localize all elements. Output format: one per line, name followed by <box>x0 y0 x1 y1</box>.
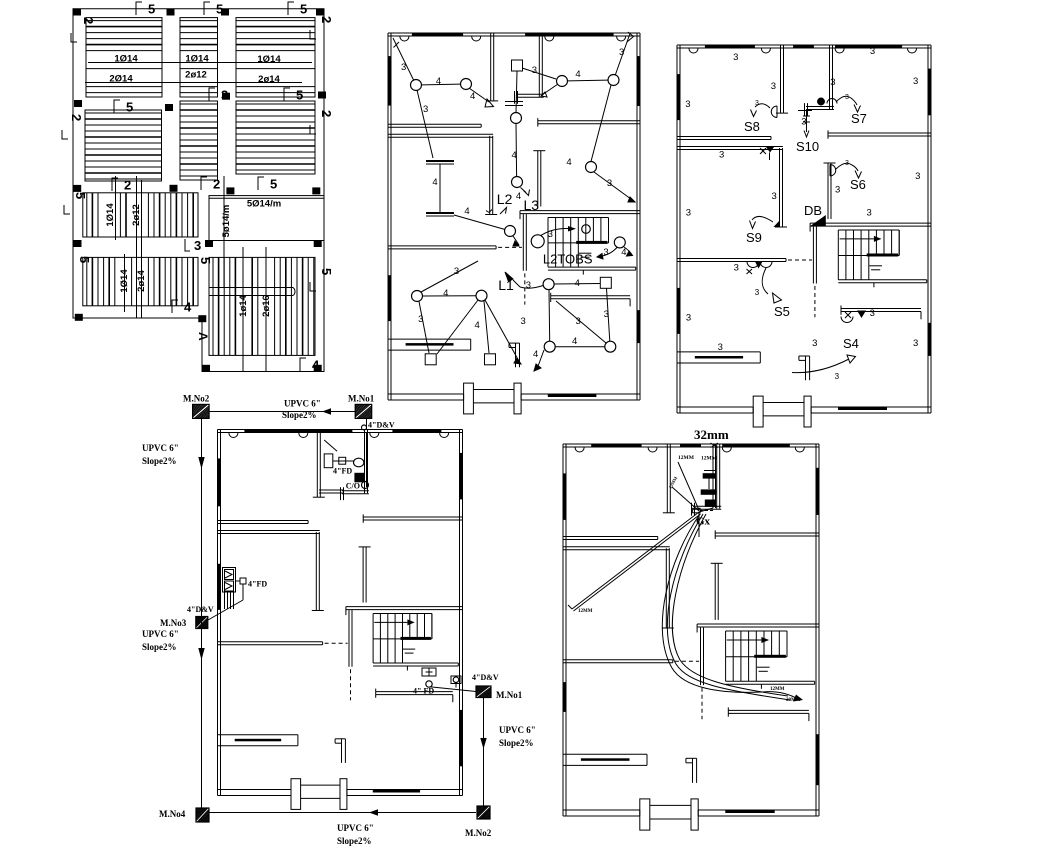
sewer pipe left <box>201 418 203 808</box>
svg-text:4"D&V: 4"D&V <box>187 605 214 614</box>
circuit label 4 (3) <box>512 150 517 161</box>
sewer pipe bottom <box>209 809 476 815</box>
drain line right <box>429 684 476 692</box>
drainage plan window left 1 <box>218 458 222 506</box>
wire F11-square3 <box>419 302 429 354</box>
rebar label 2Ø16 panel B3 <box>261 295 272 317</box>
svg-text:4"D&V: 4"D&V <box>368 421 395 430</box>
section marker 2 left-2 <box>62 114 84 139</box>
switch plan outer wall top <box>677 45 931 48</box>
lighting plan door arc <box>400 37 409 42</box>
drainage plan outer wall right <box>460 430 463 796</box>
svg-text:3: 3 <box>870 308 875 319</box>
drainage plan window top 1 <box>244 430 352 434</box>
water plan outer wall bottom-right <box>698 810 819 816</box>
water plan dashed passage <box>675 660 699 662</box>
junction mark hall <box>760 147 774 160</box>
switch plan outer wall bottom-left <box>677 407 753 413</box>
wall tag 3 (7) <box>801 117 806 128</box>
switch plan wall bath jog <box>805 103 808 116</box>
drainage plan window top 2 <box>392 430 441 434</box>
water plan door arc <box>795 448 804 453</box>
label Slope left2 <box>142 642 177 652</box>
switch plan stairs level mark <box>869 266 882 270</box>
switch plan window left 1 <box>677 74 681 120</box>
switch plan DB label <box>804 203 822 218</box>
svg-text:12MM: 12MM <box>678 455 695 461</box>
lighting plan wall bedroom2 north <box>388 134 493 137</box>
switch label S5 <box>774 304 790 319</box>
wire wardrobe vertical <box>439 164 441 212</box>
water branch 1 <box>678 462 699 510</box>
svg-text:M.No2: M.No2 <box>183 394 210 404</box>
switch label S4 <box>843 336 859 351</box>
drainage plan outer wall left <box>218 430 221 796</box>
water curve 3 <box>672 514 788 696</box>
svg-text:2: 2 <box>213 177 220 192</box>
wire square-F15 <box>607 289 610 342</box>
svg-text:2ø14: 2ø14 <box>258 74 280 85</box>
drainage plan wall hall <box>349 610 352 667</box>
switch plan porch edge <box>763 403 804 416</box>
water plan stairs arrow <box>727 637 769 643</box>
drainage plan wall bath right <box>365 430 368 494</box>
svg-text:5: 5 <box>77 256 92 263</box>
section marker 5 row3 <box>258 177 277 192</box>
svg-text:S8: S8 <box>744 119 760 134</box>
svg-text:2: 2 <box>319 16 334 23</box>
wardrobe bar 1 <box>426 160 454 164</box>
wire L1 arrow <box>505 272 543 288</box>
drainage plan outer wall bottom-right <box>347 790 463 796</box>
bath shower line <box>324 440 337 451</box>
circuit label 3 (11) <box>604 309 609 320</box>
switch plan door arc <box>761 49 770 54</box>
soil pipe M.No1 <box>362 418 367 487</box>
svg-text:M.No4: M.No4 <box>159 809 186 819</box>
wire wardrobe-F8 <box>454 215 505 230</box>
ceiling light F4 <box>557 76 568 87</box>
section marker 2 right-2 <box>310 110 334 134</box>
water plan wall hall <box>701 628 704 686</box>
lighting plan wall bedroom4 left <box>533 151 545 207</box>
svg-text:5: 5 <box>319 268 334 275</box>
lighting plan wall bath jog <box>515 91 518 104</box>
circuit label 4 (10) <box>575 278 580 289</box>
ceiling light F11 <box>412 291 423 302</box>
drainage plan wall bedroom3 south <box>363 514 462 522</box>
svg-text:4: 4 <box>621 247 626 258</box>
label 4DV M.No3 <box>187 605 214 614</box>
rebar callout line upper <box>88 62 312 64</box>
wire F13-F14 <box>548 290 551 342</box>
water plan window right 2 <box>816 734 820 785</box>
rebar extension line v2 <box>136 176 138 318</box>
svg-text:4: 4 <box>575 69 580 80</box>
svg-text:12MM: 12MM <box>770 687 785 692</box>
wire F12-square3 <box>437 300 478 354</box>
manhole M.No1 right <box>476 686 491 698</box>
left bath grate <box>225 593 234 610</box>
water plan living window band <box>563 754 647 765</box>
wire F13-square <box>554 283 600 286</box>
column C13 <box>74 240 82 247</box>
water plan outer wall right <box>816 444 819 816</box>
water plan window top 1 <box>591 444 641 448</box>
svg-text:3: 3 <box>575 316 580 327</box>
svg-text:3: 3 <box>619 47 624 58</box>
column C12 <box>312 187 320 194</box>
switch plan porch pier left <box>753 396 763 427</box>
label Slope left1 <box>142 456 177 466</box>
door arc S4 <box>841 317 853 323</box>
slab plan border <box>73 9 324 372</box>
label 5Ø14/m vertical <box>221 205 232 238</box>
ceiling light F7 <box>586 162 597 173</box>
slab panel A2 <box>180 18 218 97</box>
lighting plan window top 1 <box>412 33 463 37</box>
svg-text:4: 4 <box>432 177 437 188</box>
lighting plan outer wall top <box>388 33 640 36</box>
drainage plan stairs arrow <box>374 619 414 625</box>
water plan window right 1 <box>816 468 820 515</box>
label L1 <box>498 277 514 293</box>
water plan wall bedroom1 south <box>563 537 658 540</box>
svg-text:4: 4 <box>464 206 469 217</box>
flow arrow left 1 <box>198 457 204 469</box>
bath pipe <box>333 460 354 462</box>
wire F1-F2 <box>416 84 466 85</box>
lighting plan wall bedroom2 right <box>485 136 497 215</box>
label UPVC bottom <box>337 823 374 833</box>
label 12MM top <box>678 455 695 461</box>
left bath fixture 2 <box>225 581 234 591</box>
lighting plan outer wall bottom-right <box>521 394 640 400</box>
drainage plan door arc <box>229 433 238 438</box>
flow arrow left 2 <box>198 648 204 660</box>
svg-text:5: 5 <box>148 2 155 17</box>
switch plan wall bedroom1 right <box>776 45 788 113</box>
switch plan window top 2 <box>793 45 814 49</box>
water plan wall hall dashed <box>701 688 703 720</box>
ceiling light F12 <box>476 290 487 301</box>
section marker 5 left-3 <box>64 192 88 214</box>
svg-text:5: 5 <box>270 177 277 192</box>
section marker 2 row3-2 <box>201 177 220 192</box>
wall tag 3 (14) <box>734 262 739 273</box>
wall tag 3 (9) <box>686 208 691 219</box>
svg-text:4: 4 <box>436 76 441 87</box>
rebar label 1Ø14 panel B2 <box>119 269 130 293</box>
section marker 5 bottom rotated <box>198 257 213 264</box>
switch label S7 <box>851 111 867 126</box>
drainage plan wall bedroom1 right <box>313 430 325 498</box>
column C11 <box>226 187 234 194</box>
svg-text:3: 3 <box>532 65 537 76</box>
water plan wall bedroom3 south <box>715 530 819 539</box>
svg-text:4"FD: 4"FD <box>248 580 267 589</box>
label Slope top <box>282 410 317 420</box>
corner arrow <box>627 32 634 42</box>
switch plan stairs <box>838 230 899 280</box>
svg-text:1Ø14: 1Ø14 <box>257 54 281 65</box>
svg-text:4"FD: 4"FD <box>333 467 352 476</box>
water plan outer wall top <box>563 444 819 447</box>
circuit label 3 (3) <box>532 65 537 76</box>
svg-text:UPVC 6": UPVC 6" <box>499 725 536 735</box>
water plan window left 1 <box>563 473 567 520</box>
fan box SQ4 <box>485 354 496 365</box>
svg-text:3: 3 <box>915 171 920 182</box>
slab panel A1 <box>86 18 162 97</box>
wall tag 3 (5) <box>913 76 918 87</box>
water plan window top 2 <box>680 444 701 448</box>
wire F4-F5 <box>562 80 614 81</box>
water plan wall bath jog <box>692 503 695 516</box>
switch plan outer wall left <box>677 45 680 413</box>
svg-text:4: 4 <box>312 358 320 373</box>
circuit label 4 (1) <box>436 76 441 87</box>
switch plan window top 3 <box>835 45 902 49</box>
column C10 <box>170 185 178 192</box>
svg-text:4: 4 <box>443 288 448 299</box>
wire F10-wall <box>624 247 633 256</box>
sewer pipe top <box>209 408 355 414</box>
switch plan wall bedroom4 left <box>824 163 836 219</box>
wall tag 3 (17) <box>812 338 817 349</box>
svg-text:4: 4 <box>470 91 475 102</box>
lighting plan door arc <box>617 37 626 42</box>
lighting plan window right 2 <box>637 310 641 343</box>
drainage plan wall hall dashed <box>350 669 352 700</box>
switch plan wall stair north <box>810 223 931 232</box>
switch drop mark <box>505 102 523 106</box>
lighting plan door arc <box>545 37 554 42</box>
slab panel A5 <box>180 101 218 180</box>
switch arrow S7 <box>836 94 861 112</box>
svg-text:32mm: 32mm <box>694 427 729 442</box>
label 32mm <box>694 427 729 442</box>
lighting plan outer wall left <box>388 33 391 400</box>
wire F12-entry <box>485 300 521 364</box>
rebar extension line v4 <box>141 180 143 318</box>
section marker 3 mid <box>209 88 228 103</box>
svg-text:3: 3 <box>835 372 840 381</box>
switch plan stairs lower edge <box>838 280 926 288</box>
bath wc <box>354 458 365 482</box>
slab panel B2 <box>83 257 198 305</box>
wire F2-arrow <box>469 88 494 107</box>
switch plan wall bath south <box>806 107 834 110</box>
svg-text:4: 4 <box>533 349 538 360</box>
svg-text:3: 3 <box>835 184 840 195</box>
svg-text:UPVC 6": UPVC 6" <box>284 399 321 409</box>
label 4FD top <box>333 467 352 476</box>
ceiling light F3 <box>511 113 522 124</box>
svg-text:3: 3 <box>604 309 609 320</box>
label M.No4 <box>159 809 186 819</box>
drainage plan entry wall <box>335 739 345 763</box>
svg-text:3: 3 <box>755 288 760 297</box>
svg-text:M.No1: M.No1 <box>348 394 375 404</box>
left bath fixture 1 <box>225 570 234 580</box>
tiny label 1 <box>701 456 718 462</box>
bath south wall <box>319 490 344 493</box>
sewer pipe right <box>480 698 486 808</box>
drainage plan wall living north <box>218 642 323 645</box>
svg-text:3: 3 <box>913 338 918 349</box>
label 12MM branch <box>578 609 593 614</box>
svg-text:M.No3: M.No3 <box>160 618 187 628</box>
wall tag 3 (16) <box>718 342 723 353</box>
svg-text:Slope2%: Slope2% <box>142 642 177 652</box>
switch label S6 <box>850 177 866 192</box>
ceiling light F2 <box>461 79 472 90</box>
svg-text:4: 4 <box>475 320 480 331</box>
circuit label 4 (13) <box>621 247 626 258</box>
slab panel B3 <box>209 257 315 355</box>
svg-text:UPVC 6": UPVC 6" <box>142 629 179 639</box>
circuit label 4 (7) <box>464 206 469 217</box>
circuit label 4 (8) <box>443 288 448 299</box>
svg-text:20MM: 20MM <box>786 698 801 703</box>
label 4FD right <box>413 687 434 696</box>
switch plan wall bedroom1 south <box>677 137 771 140</box>
wire F4-corner arrow <box>541 84 558 97</box>
svg-text:4: 4 <box>566 157 571 168</box>
drainage plan wall stair north <box>346 607 463 616</box>
column C8 <box>318 92 326 99</box>
switch arrow S10 <box>798 111 812 138</box>
circuit label 3 (5) <box>607 178 612 189</box>
svg-text:3: 3 <box>194 238 201 253</box>
water branch 2 <box>672 487 699 511</box>
callout line 5Ø14/m <box>223 176 225 288</box>
lighting plan outer wall bottom-left <box>388 394 464 400</box>
label 4FD left <box>236 578 268 589</box>
drainage plan porch pier right <box>340 779 347 810</box>
lighting plan window top 2 <box>525 33 614 37</box>
hub Gx <box>696 516 711 528</box>
circuit label 4 (2) <box>470 91 475 102</box>
right bath fixture 2 <box>451 676 461 684</box>
svg-text:M.No2: M.No2 <box>465 828 492 838</box>
label M.No2 bottom <box>465 828 492 838</box>
lighting plan entry wall <box>509 343 520 367</box>
switch arrow S8 <box>751 100 771 117</box>
switch plan stairs arrow <box>840 236 882 242</box>
circuit label 3 (12) <box>548 229 553 240</box>
svg-text:3: 3 <box>686 313 691 324</box>
circuit label 4 (9) <box>475 320 480 331</box>
circuit label 3 (13) <box>603 247 608 258</box>
label M.No1 right <box>496 690 523 700</box>
svg-text:S10: S10 <box>796 139 819 154</box>
switch label S10 <box>796 139 819 154</box>
svg-text:2: 2 <box>81 17 96 24</box>
svg-text:2ø12: 2ø12 <box>185 70 207 81</box>
wire F9-stair arrow <box>540 226 576 236</box>
switch plan door arc <box>835 49 844 54</box>
svg-text:3: 3 <box>771 81 776 92</box>
wire square1-F4 <box>522 68 556 79</box>
svg-text:5: 5 <box>296 88 303 103</box>
rebar label 2Ø14 panel A3 <box>258 74 280 85</box>
drainage plan porch edge <box>301 785 340 798</box>
svg-text:3: 3 <box>845 94 849 101</box>
wall tag 3 (15) <box>686 313 691 324</box>
lighting plan wall bedroom1 right <box>486 33 498 101</box>
drainage plan stairs lower edge <box>373 663 458 671</box>
section marker 5 top-3 <box>288 2 307 17</box>
water curve 2 <box>667 514 790 700</box>
label 4DV right <box>472 673 499 682</box>
svg-text:4: 4 <box>512 150 517 161</box>
svg-text:5: 5 <box>216 2 223 17</box>
svg-text:3: 3 <box>221 88 228 103</box>
wire F5-F7 <box>591 85 611 162</box>
wall tag 3 (1) <box>733 52 738 63</box>
svg-text:UPVC 6": UPVC 6" <box>142 443 179 453</box>
column C19 <box>314 365 322 372</box>
lighting plan window left 1 <box>388 56 392 106</box>
slab panel A6 <box>236 101 315 174</box>
svg-text:5Ø14/m: 5Ø14/m <box>247 199 281 210</box>
section marker 2 row3-1 <box>112 178 131 193</box>
svg-text:S9: S9 <box>746 230 762 245</box>
ceiling light F8 <box>505 226 516 237</box>
label 20MM curve <box>786 698 801 703</box>
slab panel A3 <box>236 18 315 97</box>
svg-text:2: 2 <box>124 178 131 193</box>
column C4 <box>316 9 324 16</box>
wire F14-entry <box>534 350 544 371</box>
svg-text:L2TOBS: L2TOBS <box>543 252 593 267</box>
wall tag 3 (4) <box>870 46 875 57</box>
switch plan porch pier right <box>804 396 811 427</box>
svg-text:3: 3 <box>454 266 459 277</box>
stair lamp <box>582 225 591 234</box>
rebar label 1Ø14 panel B1 <box>105 203 116 227</box>
svg-text:S7: S7 <box>851 111 867 126</box>
column C17 <box>198 315 206 322</box>
lighting plan wall hall <box>523 214 526 271</box>
hub riser link <box>699 508 713 537</box>
wall tag 3 (6) <box>830 77 835 88</box>
fan box SQ2 <box>600 277 611 288</box>
svg-text:4: 4 <box>575 278 580 289</box>
circuit tag S4 <box>835 372 840 381</box>
drainage plan wall bath south <box>342 491 369 494</box>
switch plan window top 1 <box>705 45 755 49</box>
wire wall-F15 <box>556 301 606 343</box>
svg-text:3: 3 <box>772 191 777 202</box>
wire F10 down-left <box>597 248 617 260</box>
svg-text:4: 4 <box>572 336 577 347</box>
label L2 <box>497 191 513 207</box>
switch plan wall bath right <box>830 45 833 109</box>
lighting plan stairs <box>548 218 609 268</box>
svg-text:2: 2 <box>319 110 334 117</box>
section marker 5 top-2 <box>204 2 223 17</box>
lighting plan window bottom 1 <box>548 394 597 397</box>
svg-text:M.No1: M.No1 <box>496 690 523 700</box>
switch plan door arc <box>908 49 917 54</box>
svg-text:3: 3 <box>607 178 612 189</box>
svg-text:3: 3 <box>418 314 423 325</box>
label 12MM curve <box>770 687 785 692</box>
switch arrow S4 <box>792 355 856 373</box>
